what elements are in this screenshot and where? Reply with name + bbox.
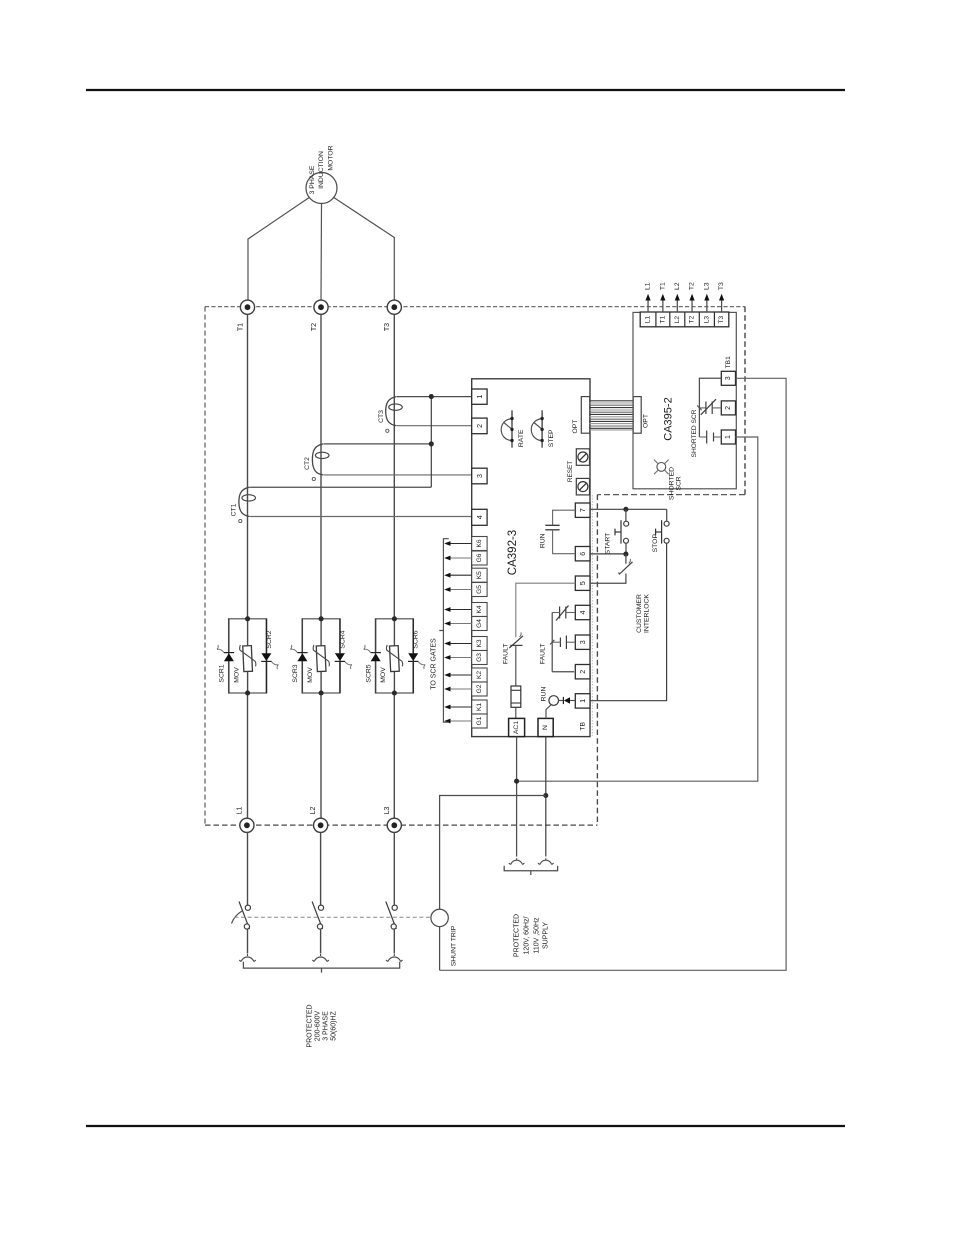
trimmer RATE — [501, 410, 525, 447]
terminal CA392-3 TB pin 4 — [575, 605, 590, 619]
svg-text:SCR2: SCR2 — [266, 630, 273, 648]
svg-text:G2: G2 — [476, 684, 483, 693]
svg-text:OPT: OPT — [572, 420, 579, 434]
svg-text:200-600V: 200-600V — [315, 1010, 322, 1041]
contact SHORTED SCR NO — [699, 431, 721, 444]
trimmer STEP — [531, 410, 555, 447]
svg-text:START: START — [604, 533, 611, 555]
top rule — [86, 89, 845, 91]
svg-text:STOP: STOP — [652, 534, 659, 553]
wire CT1 to terminal 4 — [250, 516, 472, 518]
svg-text:TB: TB — [579, 721, 586, 730]
node phase B SCR bottom — [319, 690, 324, 695]
supply chevron pole 3 — [386, 954, 403, 962]
node phase C SCR bottom — [392, 690, 397, 695]
terminal CA392-3 pin G5 — [472, 583, 487, 597]
wire N down — [545, 737, 547, 857]
node start branch junction — [623, 507, 628, 512]
wire breaker out pole 2 — [320, 929, 322, 953]
svg-text:L1: L1 — [645, 316, 652, 324]
svg-text:SCR: SCR — [676, 476, 683, 490]
CA395-2 input terminal strip — [640, 312, 729, 327]
svg-text:5: 5 — [578, 581, 587, 585]
lamp RUN — [541, 687, 559, 706]
OPT connector CA395-2 — [633, 397, 649, 434]
svg-text:CT2: CT2 — [304, 457, 311, 470]
wire motor lead T3 — [334, 198, 395, 301]
terminal T1 — [237, 300, 254, 331]
thyristor SCR6 — [408, 619, 425, 693]
svg-text:TO SCR GATES: TO SCR GATES — [431, 638, 438, 690]
current transformer CT3 — [378, 397, 402, 433]
wire motor lead T2 — [320, 204, 323, 301]
label CUSTOMER INTERLOCK — [636, 594, 651, 633]
svg-text:T2: T2 — [689, 282, 696, 290]
svg-text:2: 2 — [475, 424, 484, 428]
wire terminal 5 internal — [516, 583, 576, 637]
svg-text:MOV: MOV — [307, 667, 314, 683]
svg-text:K4: K4 — [476, 605, 483, 613]
label PROTECTED 200-600V 3 PHASE 50/60HZ — [307, 1004, 338, 1047]
svg-text:PROTECTED: PROTECTED — [513, 914, 520, 957]
wire gate lead K3 with arrow — [444, 641, 472, 646]
wire CT3 to terminal 1 — [397, 396, 472, 398]
svg-text:6: 6 — [578, 552, 587, 556]
wire CT2 to terminal 3 — [324, 474, 472, 476]
supply chevron control — [509, 858, 525, 864]
wire phase A upper — [247, 314, 249, 619]
wire gate lead K6 with arrow — [444, 541, 472, 546]
svg-text:K1: K1 — [476, 703, 483, 711]
wire phase C through SCR block — [393, 619, 395, 693]
wire breaker feed pole 3 — [393, 832, 395, 905]
terminal CA392-3 TB pin 3 — [575, 635, 590, 649]
wire gate lead K5 with arrow — [444, 573, 472, 578]
wire terminal 7 internal — [553, 510, 576, 525]
wire phase C lower — [393, 693, 395, 818]
terminal CA392-3 pin G3 — [472, 651, 487, 665]
svg-text:TB1: TB1 — [725, 356, 732, 368]
pushbutton STOP — [652, 520, 669, 552]
wire terminal 2 internal — [552, 671, 574, 673]
SCR assembly box phase A — [229, 619, 267, 693]
3 phase supply bracket — [243, 962, 399, 973]
svg-text:3 PHASE: 3 PHASE — [309, 165, 316, 194]
svg-text:T1: T1 — [659, 282, 666, 290]
RESET screw upper — [576, 449, 589, 466]
svg-text:G6: G6 — [476, 553, 483, 562]
wire gate lead G2 with arrow — [444, 687, 472, 692]
svg-text:INTERLOCK: INTERLOCK — [644, 594, 651, 633]
node N junction — [543, 793, 548, 798]
wire gate lead G6 with arrow — [444, 556, 472, 561]
OPT connector CA392-3 — [572, 397, 590, 434]
svg-text:SHUNT TRIP: SHUNT TRIP — [450, 925, 457, 966]
node phase A SCR top — [245, 616, 250, 621]
terminal CA392-3 pin K6 — [472, 537, 487, 551]
terminal CA392-3 TB pin 2 — [575, 665, 590, 679]
terminal CA392-3 pin 2 — [472, 418, 487, 434]
svg-text:T2: T2 — [311, 323, 318, 331]
wire gate lead K1 with arrow — [444, 705, 472, 710]
SCR assembly box phase C — [375, 619, 413, 693]
thyristor SCR2 — [261, 619, 278, 693]
lamp SHORTED SCR — [654, 460, 683, 500]
svg-text:T2: T2 — [689, 315, 696, 323]
capacitor RUN — [540, 525, 560, 548]
wire phase B through SCR block — [320, 619, 322, 693]
wire start branch lower — [625, 543, 627, 554]
wire interlock upper — [625, 554, 627, 564]
dashed enclosure top edge — [205, 306, 745, 308]
svg-text:L2: L2 — [674, 316, 681, 324]
contact CUSTOMER INTERLOCK NC — [618, 559, 633, 575]
svg-text:G5: G5 — [476, 585, 483, 594]
wire interlock lower to terminal 5 — [590, 574, 626, 584]
svg-text:G1: G1 — [476, 716, 483, 725]
dashed enclosure right edge lower — [596, 495, 598, 825]
svg-text:FAULT: FAULT — [539, 643, 546, 664]
svg-text:MOV: MOV — [233, 667, 240, 683]
thyristor SCR4 — [335, 619, 352, 693]
svg-text:3: 3 — [725, 376, 732, 380]
terminal CA392-3 pin K2 — [472, 668, 487, 682]
node CT junction middle — [429, 441, 434, 446]
wire gate lead G4 with arrow — [444, 621, 472, 626]
net arrow L3 — [703, 282, 710, 312]
supply chevron pole 1 — [239, 954, 256, 962]
svg-text:G4: G4 — [476, 619, 483, 628]
svg-text:2: 2 — [725, 406, 732, 410]
svg-text:L2: L2 — [674, 282, 681, 290]
terminal AC1 — [509, 718, 525, 736]
wire motor lead T1 — [248, 198, 309, 301]
fuse F1 — [511, 686, 521, 707]
node AC1 junction — [514, 779, 519, 784]
svg-text:INDUCTION: INDUCTION — [318, 151, 325, 189]
svg-text:SCR1: SCR1 — [219, 664, 226, 682]
wire lamp to N — [546, 705, 551, 719]
svg-text:L3: L3 — [703, 282, 710, 290]
svg-text:CT3: CT3 — [378, 410, 385, 423]
contact SHORTED SCR NC — [697, 399, 721, 415]
controller U1 CA392-3 box — [591, 495, 593, 736]
node CT junction upper — [429, 394, 434, 399]
svg-text:RUN: RUN — [541, 687, 548, 702]
svg-text:RUN: RUN — [540, 533, 547, 548]
wire gate lead K2 with arrow — [444, 673, 472, 678]
svg-text:3: 3 — [578, 640, 587, 644]
wire start branch upper — [625, 509, 627, 521]
svg-text:L3: L3 — [703, 316, 710, 324]
thyristor SCR1 — [217, 619, 234, 693]
contact FAULT NC form — [556, 606, 569, 621]
terminal CA392-3 pin K5 — [472, 568, 487, 582]
wire phase C upper — [393, 314, 395, 619]
wire CT common vertical — [430, 397, 432, 488]
thyristor SCR5 — [364, 619, 381, 693]
OPT ribbon cable — [590, 401, 634, 430]
board U2 CA395-2 box — [633, 312, 736, 488]
wire fault to fuse — [515, 645, 517, 686]
dashed enclosure bottom edge — [205, 824, 597, 826]
bottom rule — [86, 1125, 845, 1127]
svg-text:50(60)HZ: 50(60)HZ — [331, 1010, 338, 1040]
net arrow T3 — [718, 282, 725, 312]
svg-text:FAULT: FAULT — [503, 643, 510, 664]
svg-text:1: 1 — [578, 699, 587, 703]
dashed enclosure right edge upper — [744, 307, 746, 495]
wire contact to bus — [552, 612, 559, 614]
svg-text:3 PHASE: 3 PHASE — [323, 1011, 330, 1041]
terminal CA392-3 TB pin 7 — [575, 503, 590, 517]
circuit breaker pole 2 — [312, 902, 324, 930]
wire phase A through SCR block — [247, 619, 249, 693]
svg-text:4: 4 — [475, 515, 484, 519]
label PROTECTED 120V 60Hz 110V 50Hz SUPPLY — [513, 914, 549, 957]
terminal CA392-3 pin 4 — [472, 509, 487, 525]
wire breaker out pole 3 — [393, 929, 395, 953]
svg-text:N: N — [542, 725, 549, 730]
svg-text:L3: L3 — [384, 807, 391, 815]
dashed enclosure left edge — [204, 307, 206, 826]
terminal T2 — [311, 300, 328, 331]
terminal CA392-3 TB pin 1 — [575, 694, 590, 708]
svg-text:T3: T3 — [384, 323, 391, 331]
wire stop branch upper — [666, 509, 668, 521]
wire phase B upper — [320, 314, 322, 619]
shunt trip coil — [431, 909, 457, 966]
svg-text:K3: K3 — [476, 639, 483, 647]
terminal CA392-3 pin 1 — [472, 389, 487, 404]
svg-text:RATE: RATE — [518, 429, 525, 447]
svg-text:1: 1 — [725, 435, 732, 439]
wire gate lead G1 with arrow — [444, 719, 472, 724]
svg-text:110V ,50Hz: 110V ,50Hz — [533, 917, 540, 954]
terminal CA392-3 pin G1 — [472, 714, 487, 728]
svg-text:CA395-2: CA395-2 — [662, 397, 674, 440]
svg-text:K6: K6 — [476, 539, 483, 547]
terminal L3 — [384, 807, 402, 833]
svg-text:1: 1 — [475, 395, 484, 399]
wire stop to terminal 1 — [590, 543, 667, 700]
wire terminal 6 external — [590, 553, 626, 555]
wire breaker feed pole 2 — [320, 832, 322, 905]
wire CT1 top — [250, 486, 431, 488]
svg-text:2: 2 — [578, 670, 587, 674]
wire shunt trip down — [439, 927, 441, 971]
svg-text:SCR3: SCR3 — [292, 664, 299, 682]
wire terminal 7 to stop branch — [590, 508, 667, 510]
wire fault bus vertical — [551, 613, 553, 672]
node start bottom junction — [623, 552, 628, 557]
wire terminal 6 internal — [553, 530, 576, 554]
svg-text:RESET: RESET — [567, 461, 574, 482]
wire fuse to AC1 — [515, 707, 517, 718]
diode RUN indicator — [559, 697, 576, 704]
svg-text:SCR6: SCR6 — [413, 630, 420, 648]
svg-text:T3: T3 — [718, 315, 725, 323]
wire phase B lower — [320, 693, 322, 818]
svg-text:4: 4 — [578, 611, 587, 615]
terminal TB1 pin 1 — [721, 430, 735, 444]
net arrow T1 — [659, 282, 666, 312]
svg-text:SHORTED SCR: SHORTED SCR — [691, 409, 698, 457]
contact FAULT NO form — [539, 636, 574, 665]
terminal CA392-3 pin G6 — [472, 551, 487, 565]
svg-text:SCR4: SCR4 — [339, 630, 346, 648]
wire gate lead K4 with arrow — [444, 607, 472, 612]
wire CT3 to terminal 2 — [397, 425, 472, 427]
svg-text:T1: T1 — [237, 323, 244, 331]
current transformer CT2 — [304, 444, 329, 481]
current transformer CT1 — [230, 487, 255, 522]
RESET screw lower — [576, 478, 589, 495]
supply chevron control — [538, 858, 554, 864]
svg-text:CUSTOMER: CUSTOMER — [636, 594, 643, 633]
varistor MOV phase C — [380, 645, 403, 683]
svg-text:L1: L1 — [237, 807, 244, 815]
terminal L1 — [237, 807, 254, 833]
svg-text:CT1: CT1 — [230, 503, 237, 516]
dashed enclosure step edge — [597, 494, 745, 496]
circuit breaker pole 1 — [232, 902, 251, 930]
net arrow L2 — [674, 282, 681, 312]
svg-text:G3: G3 — [476, 653, 483, 662]
svg-text:SHORTED: SHORTED — [668, 467, 675, 500]
svg-text:L2: L2 — [310, 807, 317, 815]
node phase A SCR bottom — [245, 690, 250, 695]
svg-text:SUPPLY: SUPPLY — [543, 922, 550, 949]
breaker mechanical link — [235, 916, 431, 918]
label TB1 — [725, 356, 732, 368]
terminal CA392-3 pin G2 — [472, 682, 487, 696]
wire breaker feed pole 1 — [247, 832, 249, 905]
svg-text:T1: T1 — [659, 315, 666, 323]
terminal L2 — [310, 807, 328, 833]
svg-text:SCR5: SCR5 — [365, 664, 372, 682]
svg-text:7: 7 — [578, 508, 587, 512]
control supply bracket — [504, 866, 557, 875]
terminal TB1 pin 3 — [721, 371, 735, 385]
label RESET — [567, 461, 574, 482]
wire phase A lower — [247, 693, 249, 818]
svg-text:MOV: MOV — [380, 667, 387, 683]
circuit breaker pole 3 — [386, 902, 398, 930]
terminal T3 — [384, 300, 401, 331]
terminal CA392-3 pin K3 — [472, 637, 487, 651]
TO SCR GATES bracket — [439, 539, 448, 723]
thyristor SCR3 — [290, 619, 307, 693]
svg-text:3: 3 — [475, 474, 484, 478]
net arrow L1 — [645, 282, 652, 312]
wire gate lead G3 with arrow — [444, 655, 472, 660]
svg-text:OPT: OPT — [642, 414, 649, 428]
wire gate lead G5 with arrow — [444, 587, 472, 592]
svg-text:K5: K5 — [476, 571, 483, 579]
node phase B SCR top — [319, 616, 324, 621]
contact FAULT NC — [503, 632, 523, 664]
wire CT2 top — [324, 443, 432, 445]
wire TB1-3 internal — [699, 378, 721, 437]
net arrow T2 — [689, 282, 696, 312]
wire TB1-3 to shunt trip — [440, 378, 786, 970]
wire AC1 down — [516, 737, 518, 857]
wire terminal 4 internal — [566, 612, 575, 614]
label TO SCR GATES — [431, 638, 438, 690]
wire breaker out pole 1 — [247, 929, 249, 953]
svg-text:PROTECTED: PROTECTED — [307, 1004, 314, 1047]
svg-text:L1: L1 — [645, 282, 652, 290]
pushbutton START — [604, 520, 628, 554]
supply chevron pole 2 — [312, 954, 329, 962]
svg-text:CA392-3: CA392-3 — [507, 530, 519, 575]
node phase C SCR top — [392, 616, 397, 621]
terminal CA392-3 pin K1 — [472, 700, 487, 714]
SCR assembly box phase B — [302, 619, 340, 693]
terminal CA392-3 pin G4 — [472, 617, 487, 631]
terminal CA392-3 TB pin 6 — [575, 547, 590, 561]
label TB — [579, 721, 586, 730]
svg-text:120V, 60Hz/: 120V, 60Hz/ — [523, 917, 530, 955]
wire N to shunt trip — [440, 796, 546, 910]
motor M1 3 PHASE INDUCTION MOTOR — [306, 145, 337, 203]
varistor MOV phase A — [233, 645, 256, 683]
terminal CA392-3 pin 3 — [472, 468, 487, 484]
terminal N — [538, 718, 553, 736]
svg-text:MOTOR: MOTOR — [327, 145, 334, 170]
wire TB1-1 to AC1 line — [517, 437, 758, 781]
terminal TB1 pin 2 — [721, 401, 735, 415]
varistor MOV phase B — [307, 645, 330, 683]
svg-text:STEP: STEP — [548, 429, 555, 447]
svg-text:T3: T3 — [718, 282, 725, 290]
svg-text:AC1: AC1 — [513, 721, 520, 734]
terminal CA392-3 pin K4 — [472, 603, 487, 617]
svg-text:K2: K2 — [476, 671, 483, 679]
terminal CA392-3 TB pin 5 — [575, 576, 590, 590]
label SHORTED SCR relay — [691, 409, 698, 457]
